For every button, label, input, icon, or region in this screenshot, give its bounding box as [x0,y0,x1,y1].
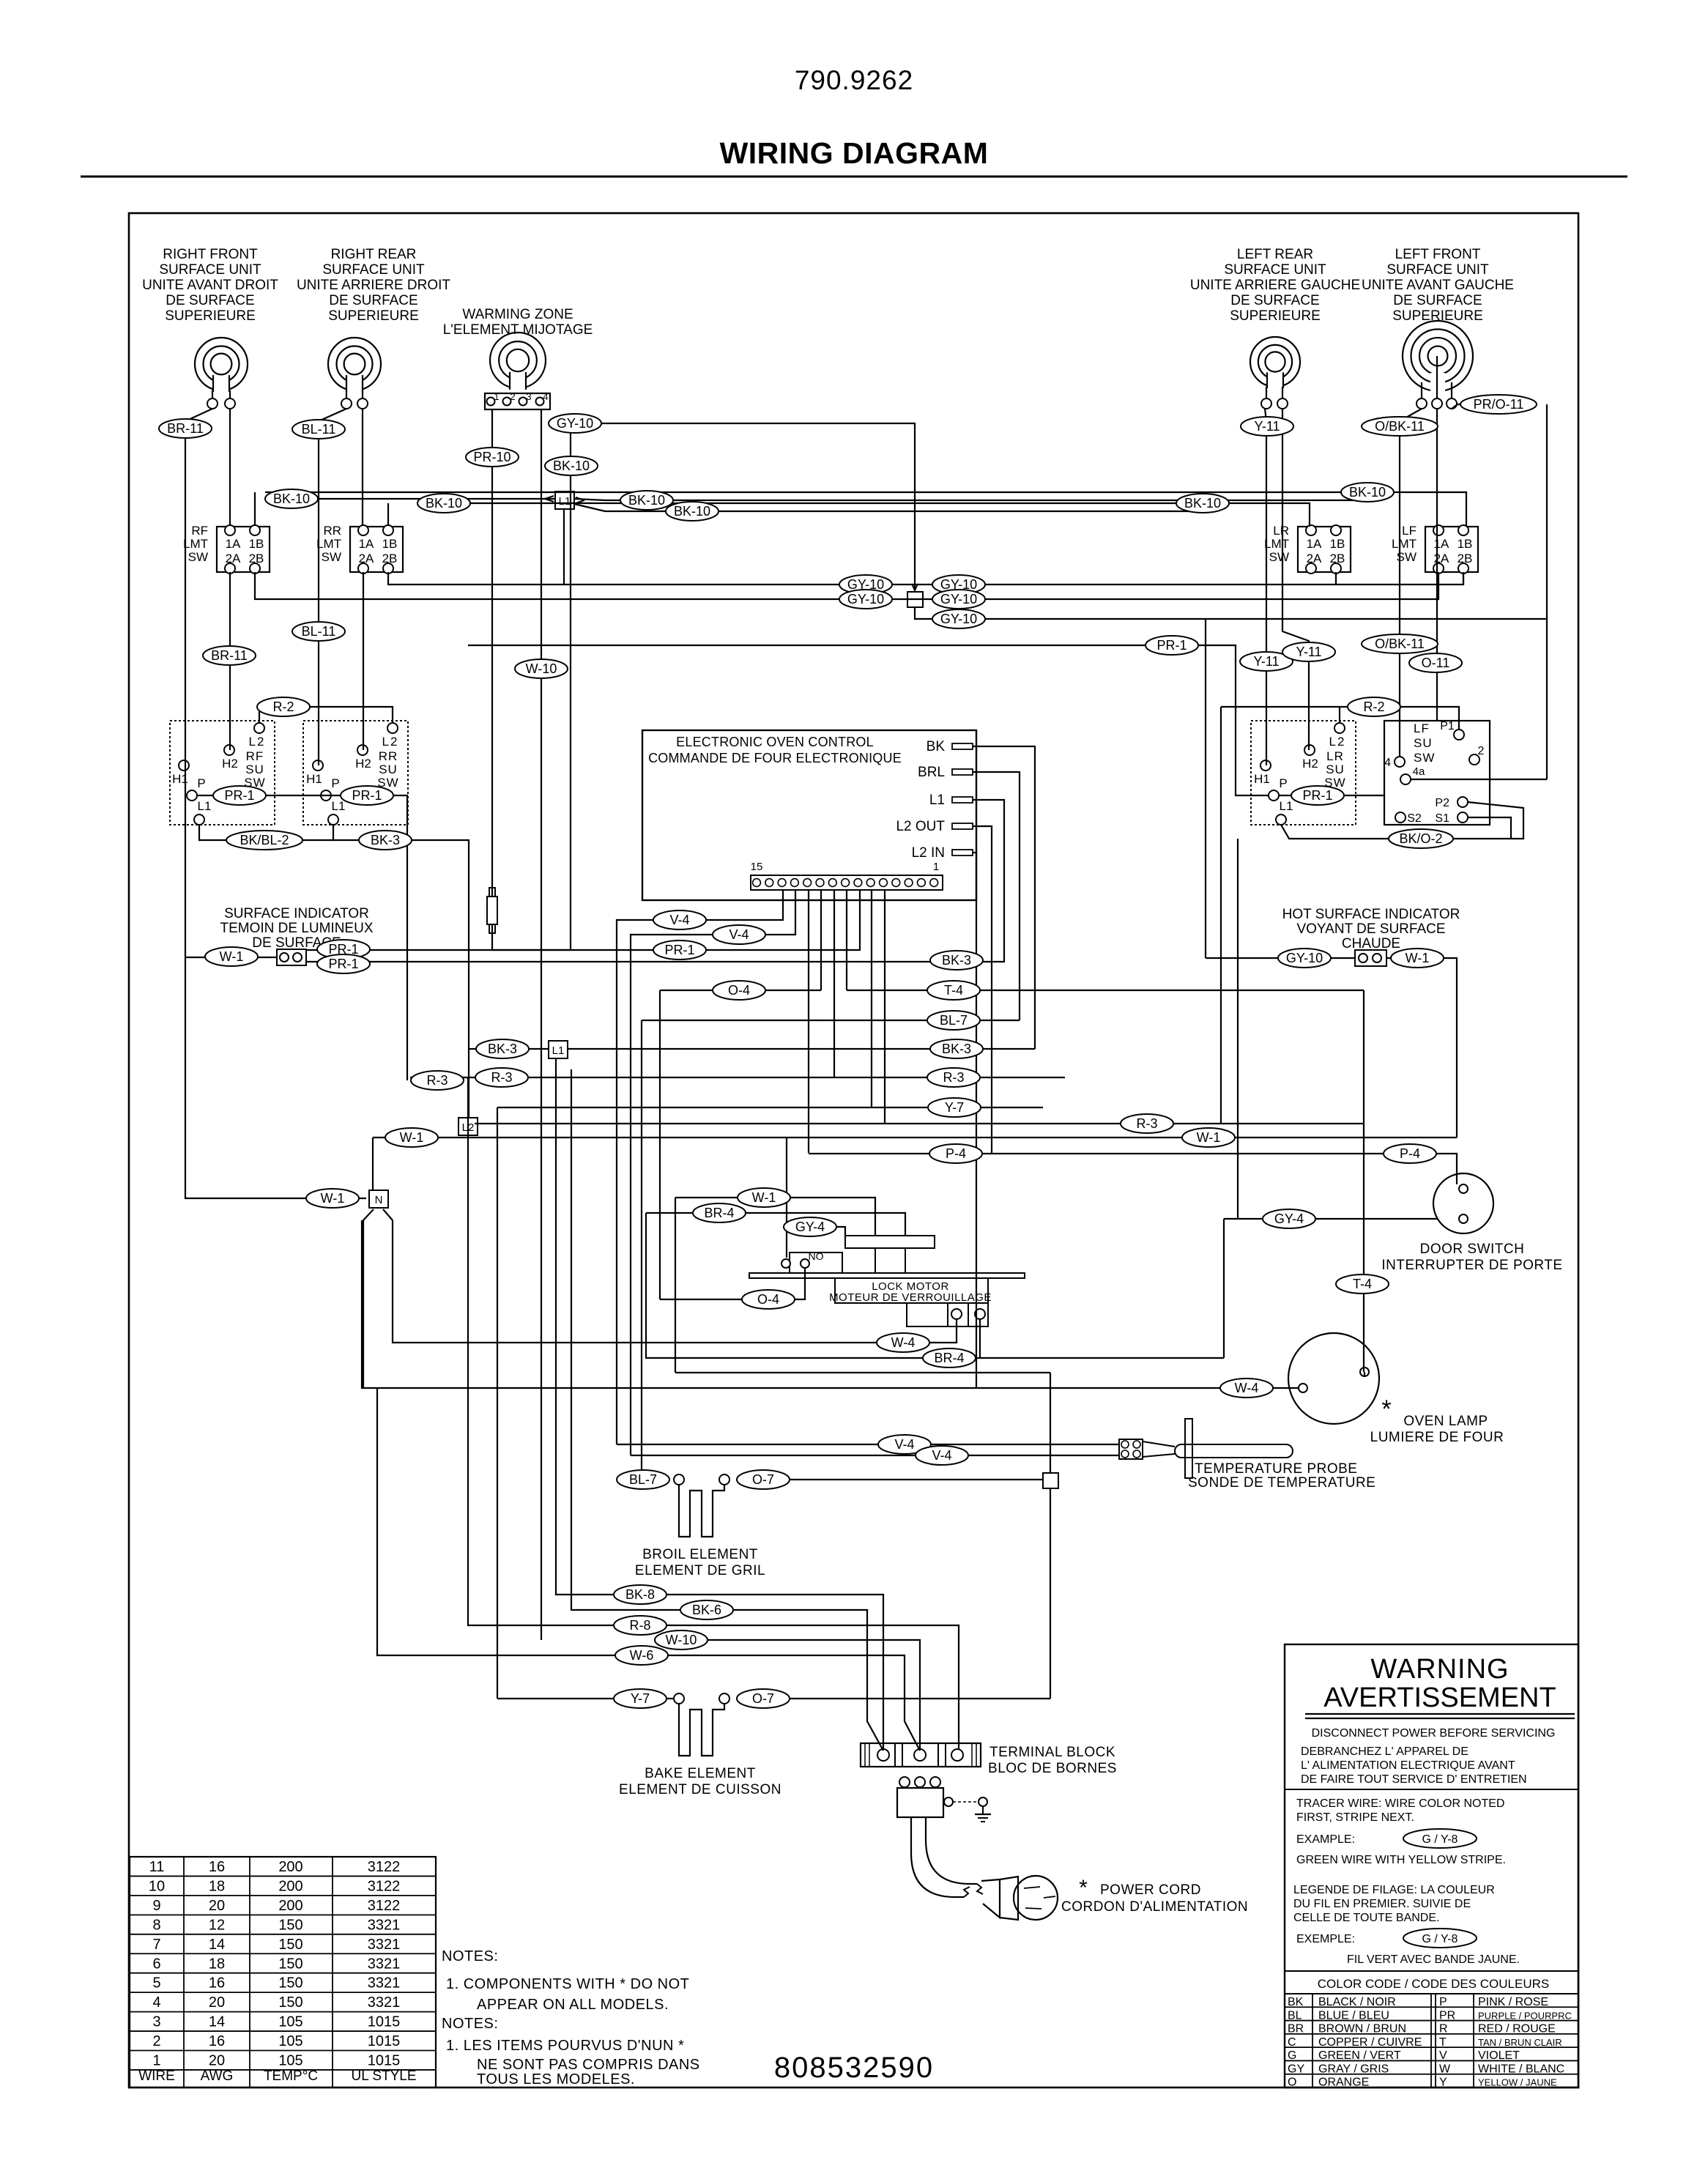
svg-text:16: 16 [209,2033,225,2049]
svg-text:DE SURFACE: DE SURFACE [1230,293,1319,308]
svg-text:Y-11: Y-11 [1253,654,1279,669]
svg-text:GY-4: GY-4 [1274,1211,1304,1226]
svg-text:UNITE ARRIERE GAUCHE: UNITE ARRIERE GAUCHE [1190,278,1360,293]
svg-text:BK-10: BK-10 [273,491,310,506]
svg-text:12: 12 [209,1917,225,1933]
svg-text:R-2: R-2 [1363,699,1384,714]
svg-text:2: 2 [1478,745,1485,757]
svg-text:LR: LR [1326,749,1344,763]
svg-text:Y: Y [1439,2077,1447,2089]
svg-text:Y-11: Y-11 [1296,645,1321,659]
svg-text:BR-11: BR-11 [167,421,204,436]
svg-text:BK-6: BK-6 [692,1603,721,1617]
svg-text:P2: P2 [1435,797,1449,809]
svg-text:LR: LR [1273,524,1289,538]
svg-text:PR-1: PR-1 [328,957,358,971]
svg-text:ORANGE: ORANGE [1318,2077,1369,2089]
svg-text:105: 105 [278,2033,302,2049]
svg-text:O-4: O-4 [757,1292,779,1307]
svg-text:3321: 3321 [368,1975,401,1992]
svg-text:H2: H2 [222,757,238,771]
svg-text:4a: 4a [1413,765,1425,778]
svg-text:SURFACE UNIT: SURFACE UNIT [322,262,425,278]
svg-text:200: 200 [278,1898,302,1914]
svg-text:BK-10: BK-10 [674,504,710,519]
svg-text:O-7: O-7 [752,1691,774,1706]
svg-text:3: 3 [526,391,531,402]
svg-text:3321: 3321 [368,1917,401,1933]
svg-text:O-11: O-11 [1422,656,1450,670]
svg-text:BK/BL-2: BK/BL-2 [240,833,289,847]
svg-text:W-1: W-1 [1406,951,1430,965]
svg-text:PR-1: PR-1 [224,788,254,803]
svg-text:SW: SW [322,550,341,564]
svg-text:RF: RF [246,749,264,763]
svg-text:LMT: LMT [1392,537,1416,551]
svg-text:LMT: LMT [183,537,208,551]
svg-text:O/BK-11: O/BK-11 [1375,419,1425,434]
svg-text:DEBRANCHEZ L' APPAREL DE: DEBRANCHEZ L' APPAREL DE [1301,1745,1468,1758]
svg-text:CHAUDE: CHAUDE [1342,936,1400,951]
svg-text:8: 8 [152,1917,160,1933]
svg-text:W-1: W-1 [321,1191,345,1206]
svg-text:1A: 1A [359,537,374,551]
svg-text:T-4: T-4 [1353,1277,1372,1291]
svg-text:NE SONT PAS COMPRIS DANS: NE SONT PAS COMPRIS DANS [477,2057,700,2073]
svg-text:SURFACE INDICATOR: SURFACE INDICATOR [224,906,369,921]
svg-text:R-3: R-3 [426,1073,448,1088]
svg-text:2: 2 [510,391,515,402]
svg-text:O/BK-11: O/BK-11 [1375,637,1425,651]
svg-text:4: 4 [152,1994,160,2011]
svg-text:BR-4: BR-4 [934,1351,964,1365]
svg-text:7: 7 [152,1937,160,1953]
svg-text:V-4: V-4 [669,913,689,927]
svg-text:L1: L1 [552,1044,565,1057]
svg-text:GY-4: GY-4 [795,1220,825,1234]
svg-text:L1: L1 [332,799,346,813]
svg-text:TRACER WIRE: WIRE COLOR NOTED: TRACER WIRE: WIRE COLOR NOTED [1296,1797,1504,1810]
svg-text:T: T [1439,2036,1447,2049]
svg-text:PR-1: PR-1 [352,788,382,803]
svg-text:G / Y-8: G / Y-8 [1422,1833,1458,1846]
svg-text:20: 20 [209,1994,225,2011]
svg-text:S1: S1 [1435,812,1449,825]
svg-text:R-8: R-8 [629,1618,650,1633]
svg-text:BK: BK [927,739,946,754]
svg-text:WARMING ZONE: WARMING ZONE [462,307,573,322]
svg-text:AVERTISSEMENT: AVERTISSEMENT [1323,1682,1556,1713]
svg-text:CELLE DE TOUTE BANDE.: CELLE DE TOUTE BANDE. [1293,1912,1439,1924]
svg-text:BL-7: BL-7 [940,1013,968,1028]
svg-text:1015: 1015 [368,2014,401,2030]
svg-text:P: P [331,776,339,790]
svg-text:NOTES:: NOTES: [442,1948,498,1964]
svg-text:P-4: P-4 [1400,1146,1420,1161]
svg-text:PR-1: PR-1 [664,943,694,957]
svg-text:S2: S2 [1407,812,1422,825]
svg-text:*: * [1381,1395,1391,1423]
svg-text:EXAMPLE:: EXAMPLE: [1296,1833,1355,1846]
svg-text:BR-11: BR-11 [211,648,248,663]
svg-text:4: 4 [543,391,548,402]
svg-text:LEGENDE DE FILAGE: LA COULEUR: LEGENDE DE FILAGE: LA COULEUR [1293,1884,1495,1896]
svg-text:UNITE ARRIERE DROIT: UNITE ARRIERE DROIT [297,278,450,293]
svg-text:UNITE AVANT GAUCHE: UNITE AVANT GAUCHE [1362,278,1514,293]
svg-text:HOT SURFACE INDICATOR: HOT SURFACE INDICATOR [1282,907,1460,922]
svg-text:SURFACE UNIT: SURFACE UNIT [1224,262,1326,278]
svg-text:10: 10 [149,1878,165,1894]
svg-text:15: 15 [751,861,763,873]
svg-text:1. LES ITEMS POURVUS D'NUN *: 1. LES ITEMS POURVUS D'NUN * [446,2038,684,2054]
svg-text:RF: RF [191,524,208,538]
svg-text:BK: BK [1288,1996,1304,2008]
svg-text:DE SURFACE: DE SURFACE [166,293,254,308]
svg-text:2: 2 [152,2033,160,2049]
svg-text:1B: 1B [1330,537,1345,551]
svg-text:DU FIL EN PREMIER. SUIVIE: DU FIL EN PREMIER. SUIVIE DE [1293,1898,1471,1910]
svg-text:11: 11 [149,1859,165,1875]
svg-text:20: 20 [209,2053,225,2069]
svg-text:R-3: R-3 [1136,1116,1157,1131]
svg-text:BK/O-2: BK/O-2 [1399,831,1442,846]
svg-text:R: R [1439,2023,1448,2035]
svg-text:3321: 3321 [368,1937,401,1953]
svg-text:3122: 3122 [368,1878,401,1894]
svg-text:H1: H1 [306,772,322,786]
svg-text:3321: 3321 [368,1956,401,1972]
svg-text:L' ALIMENTATION ELECTRIQUE A: L' ALIMENTATION ELECTRIQUE AVANT [1301,1759,1515,1772]
svg-text:L'ELEMENT MIJOTAGE: L'ELEMENT MIJOTAGE [443,322,593,338]
svg-text:INTERRUPTER DE PORTE: INTERRUPTER DE PORTE [1381,1258,1562,1273]
svg-text:WARNING: WARNING [1370,1654,1509,1685]
svg-text:ELECTRONIC OVEN CONTROL: ELECTRONIC OVEN CONTROL [676,735,874,749]
svg-text:BK-10: BK-10 [553,459,590,473]
svg-text:790.9262: 790.9262 [795,65,913,95]
svg-text:AWG: AWG [201,2068,234,2084]
svg-text:TOUS LES MODELES.: TOUS LES MODELES. [477,2071,635,2087]
svg-text:BK-10: BK-10 [1349,485,1386,500]
svg-text:SUPERIEURE: SUPERIEURE [1230,308,1321,324]
svg-text:4: 4 [1384,757,1391,769]
svg-text:BLACK / NOIR: BLACK / NOIR [1318,1996,1396,2008]
svg-text:POWER CORD: POWER CORD [1100,1882,1201,1898]
svg-text:COLOR CODE / CODE DES COULEU: COLOR CODE / CODE DES COULEURS [1318,1977,1549,1991]
svg-text:LEFT REAR: LEFT REAR [1237,247,1313,262]
svg-text:C: C [1288,2036,1296,2049]
svg-text:UL STYLE: UL STYLE [351,2068,416,2084]
svg-text:SW: SW [188,550,208,564]
svg-text:BR: BR [1288,2023,1304,2035]
svg-text:BK-3: BK-3 [371,833,400,847]
svg-text:Y-7: Y-7 [631,1691,650,1706]
svg-text:18: 18 [209,1878,225,1894]
svg-text:SUPERIEURE: SUPERIEURE [328,308,419,324]
svg-text:EXEMPLE:: EXEMPLE: [1296,1933,1355,1945]
svg-text:R-3: R-3 [943,1070,964,1085]
svg-text:150: 150 [278,1917,302,1933]
svg-text:W-1: W-1 [400,1130,424,1145]
svg-text:*: * [1079,1876,1088,1900]
svg-text:GY: GY [1288,2063,1304,2075]
svg-text:RR: RR [379,749,398,763]
svg-text:SW: SW [1269,550,1289,564]
svg-text:DE SURFACE: DE SURFACE [1393,293,1482,308]
svg-text:GY-10: GY-10 [557,416,593,431]
svg-text:H2: H2 [1302,757,1318,771]
svg-text:H2: H2 [355,757,371,771]
svg-text:L2: L2 [249,735,266,749]
svg-text:9: 9 [152,1898,160,1914]
svg-text:PR/O-11: PR/O-11 [1474,397,1524,412]
svg-text:BLUE / BLEU: BLUE / BLEU [1318,2009,1389,2022]
svg-text:105: 105 [278,2053,302,2069]
svg-text:18: 18 [209,1956,225,1972]
svg-text:1B: 1B [1458,537,1473,551]
svg-text:1015: 1015 [368,2033,401,2049]
svg-text:1A: 1A [226,537,241,551]
svg-text:SUPERIEURE: SUPERIEURE [165,308,256,324]
svg-text:DISCONNECT POWER BEFORE SERVIC: DISCONNECT POWER BEFORE SERVICING [1312,1727,1556,1740]
svg-text:1: 1 [152,2053,160,2069]
svg-text:BL-11: BL-11 [302,624,336,639]
svg-text:VOYANT DE SURFACE: VOYANT DE SURFACE [1296,921,1445,937]
svg-text:GREEN WIRE WITH YELLOW STRIPE.: GREEN WIRE WITH YELLOW STRIPE. [1296,1854,1506,1866]
svg-text:200: 200 [278,1878,302,1894]
svg-text:P: P [1439,1996,1447,2008]
svg-text:N: N [375,1194,383,1206]
svg-text:SU: SU [245,762,264,776]
svg-text:LF: LF [1402,524,1416,538]
svg-text:16: 16 [209,1975,225,1992]
svg-text:ELEMENT DE GRIL: ELEMENT DE GRIL [635,1563,765,1578]
svg-text:CORDON D'ALIMENTATION: CORDON D'ALIMENTATION [1061,1899,1248,1915]
svg-text:PR-1: PR-1 [1302,788,1332,803]
svg-text:105: 105 [278,2014,302,2030]
svg-text:RIGHT REAR: RIGHT REAR [331,247,417,262]
svg-text:APPEAR ON ALL MODELS.: APPEAR ON ALL MODELS. [477,1997,669,2013]
svg-text:G / Y-8: G / Y-8 [1422,1933,1458,1945]
svg-text:5: 5 [152,1975,160,1992]
svg-text:RR: RR [323,524,341,538]
svg-text:V-4: V-4 [894,1437,914,1452]
svg-text:3122: 3122 [368,1898,401,1914]
svg-text:GREEN / VERT: GREEN / VERT [1318,2049,1401,2062]
svg-text:W-10: W-10 [666,1633,697,1647]
svg-text:SU: SU [1414,736,1433,750]
svg-text:150: 150 [278,1975,302,1992]
svg-text:GRAY / GRIS: GRAY / GRIS [1318,2063,1389,2075]
svg-text:R-3: R-3 [491,1070,512,1085]
svg-text:LUMIERE DE FOUR: LUMIERE DE FOUR [1370,1430,1504,1445]
svg-text:3321: 3321 [368,1994,401,2011]
svg-text:V-4: V-4 [932,1448,951,1463]
svg-text:TEMP°C: TEMP°C [264,2068,318,2084]
svg-text:BROIL ELEMENT: BROIL ELEMENT [642,1547,758,1562]
svg-text:ELEMENT DE CUISSON: ELEMENT DE CUISSON [619,1782,781,1797]
svg-text:DE SURFACE: DE SURFACE [329,293,417,308]
svg-text:WIRE: WIRE [138,2068,175,2084]
svg-text:BK-10: BK-10 [628,493,665,508]
svg-text:W-1: W-1 [1197,1130,1221,1145]
svg-text:W-4: W-4 [891,1335,916,1350]
svg-text:W-4: W-4 [1235,1381,1259,1395]
svg-text:P-4: P-4 [946,1146,966,1161]
svg-text:14: 14 [209,1937,225,1953]
svg-text:20: 20 [209,1898,225,1914]
svg-text:1. COMPONENTS WITH * DO NOT: 1. COMPONENTS WITH * DO NOT [446,1976,689,1992]
svg-text:T-4: T-4 [944,983,963,998]
svg-text:BL-11: BL-11 [302,422,336,437]
svg-text:WIRING DIAGRAM: WIRING DIAGRAM [720,136,989,170]
svg-text:BL: BL [1288,2009,1302,2022]
svg-text:BL-7: BL-7 [629,1472,657,1487]
svg-text:UNITE AVANT DROIT: UNITE AVANT DROIT [142,278,278,293]
svg-text:6: 6 [152,1956,160,1972]
svg-text:LMT: LMT [1264,537,1289,551]
svg-text:SURFACE UNIT: SURFACE UNIT [159,262,261,278]
svg-text:COMMANDE DE FOUR ELECTRONIQUE: COMMANDE DE FOUR ELECTRONIQUE [648,751,902,765]
svg-text:LF: LF [1414,721,1430,735]
svg-text:BK-3: BK-3 [942,953,971,968]
svg-text:W-1: W-1 [752,1190,776,1205]
svg-text:V-4: V-4 [729,927,749,942]
svg-text:SU: SU [379,762,398,776]
svg-text:GY-10: GY-10 [940,592,977,606]
svg-text:BROWN / BRUN: BROWN / BRUN [1318,2023,1406,2035]
svg-text:L2 IN: L2 IN [912,845,945,861]
svg-text:V: V [1439,2049,1447,2062]
svg-text:150: 150 [278,1937,302,1953]
svg-text:Y-7: Y-7 [945,1100,964,1115]
svg-text:1B: 1B [249,537,264,551]
svg-text:DE FAIRE TOUT SERVICE D' E: DE FAIRE TOUT SERVICE D' ENTRETIEN [1301,1773,1527,1786]
svg-text:TAN / BRUN CLAIR: TAN / BRUN CLAIR [1478,2037,1562,2048]
svg-text:BK-3: BK-3 [488,1042,517,1056]
svg-text:3: 3 [152,2014,160,2030]
svg-text:SU: SU [1326,762,1345,776]
svg-text:H1: H1 [1254,772,1270,786]
svg-text:FIL VERT AVEC BANDE JAUNE.: FIL VERT AVEC BANDE JAUNE. [1347,1953,1520,1966]
svg-text:MOTEUR DE VERROUILLAGE: MOTEUR DE VERROUILLAGE [829,1291,992,1304]
svg-text:TEMPERATURE PROBE: TEMPERATURE PROBE [1195,1461,1357,1477]
svg-text:LEFT FRONT: LEFT FRONT [1395,247,1481,262]
svg-text:W: W [1439,2063,1451,2075]
svg-text:GY-10: GY-10 [847,592,884,606]
svg-text:1: 1 [933,861,939,873]
svg-text:FIRST, STRIPE NEXT.: FIRST, STRIPE NEXT. [1296,1811,1414,1824]
svg-text:BK-3: BK-3 [942,1042,971,1056]
svg-text:BAKE ELEMENT: BAKE ELEMENT [645,1766,756,1781]
svg-text:BLOC DE BORNES: BLOC DE BORNES [988,1761,1117,1776]
svg-text:OVEN LAMP: OVEN LAMP [1403,1414,1488,1429]
svg-text:1A: 1A [1307,537,1322,551]
svg-text:BRL: BRL [918,765,945,780]
svg-text:O: O [1288,2077,1296,2089]
svg-text:BK-8: BK-8 [625,1587,655,1602]
svg-text:P: P [1279,776,1287,790]
svg-text:NO: NO [809,1250,824,1262]
svg-text:RED / ROUGE: RED / ROUGE [1478,2023,1556,2035]
svg-text:3122: 3122 [368,1859,401,1875]
svg-text:Y-11: Y-11 [1254,419,1280,434]
svg-text:W-10: W-10 [526,661,557,676]
svg-text:200: 200 [278,1859,302,1875]
svg-text:VIOLET: VIOLET [1478,2049,1520,2062]
svg-text:BK-10: BK-10 [1184,496,1221,511]
svg-text:LMT: LMT [316,537,341,551]
svg-text:1A: 1A [1434,537,1449,551]
svg-text:808532590: 808532590 [774,2052,934,2084]
svg-text:L1: L1 [929,793,945,808]
svg-text:16: 16 [209,1859,225,1875]
svg-text:COPPER / CUIVRE: COPPER / CUIVRE [1318,2036,1422,2049]
svg-text:P: P [197,776,205,790]
svg-text:TEMOIN DE LUMINEUX: TEMOIN DE LUMINEUX [220,921,373,936]
svg-text:PURPLE / POURPRC: PURPLE / POURPRC [1478,2010,1572,2021]
svg-text:SONDE DE TEMPERATURE: SONDE DE TEMPERATURE [1188,1475,1375,1491]
svg-text:1015: 1015 [368,2053,401,2069]
svg-text:O-4: O-4 [728,983,750,998]
svg-text:W-6: W-6 [630,1648,654,1663]
svg-text:L2: L2 [1329,735,1346,749]
svg-text:YELLOW / JAUNE: YELLOW / JAUNE [1478,2077,1557,2088]
svg-text:PINK / ROSE: PINK / ROSE [1478,1996,1548,2008]
svg-text:L1: L1 [559,495,571,508]
svg-text:L2 OUT: L2 OUT [896,819,945,834]
svg-text:SURFACE UNIT: SURFACE UNIT [1386,262,1489,278]
svg-text:PR-1: PR-1 [1156,638,1187,653]
svg-text:1: 1 [494,391,499,402]
svg-text:SW: SW [1414,751,1435,765]
svg-text:WHITE / BLANC: WHITE / BLANC [1478,2063,1564,2075]
svg-text:W-1: W-1 [220,949,244,964]
svg-text:NOTES:: NOTES: [442,2016,498,2032]
svg-text:DOOR SWITCH: DOOR SWITCH [1420,1242,1525,1257]
svg-text:TERMINAL BLOCK: TERMINAL BLOCK [989,1745,1115,1760]
svg-text:O-7: O-7 [752,1472,774,1487]
svg-text:GY-10: GY-10 [940,612,977,626]
svg-text:RIGHT FRONT: RIGHT FRONT [163,247,258,262]
svg-text:L2: L2 [382,735,399,749]
svg-text:150: 150 [278,1956,302,1972]
svg-text:G: G [1288,2049,1296,2062]
svg-text:BK-10: BK-10 [426,496,462,511]
svg-text:P1: P1 [1440,720,1455,732]
svg-text:1B: 1B [382,537,398,551]
svg-text:14: 14 [209,2014,225,2030]
svg-text:PR: PR [1439,2009,1455,2022]
svg-text:R-2: R-2 [272,699,294,714]
svg-text:L1: L1 [198,799,212,813]
svg-text:BR-4: BR-4 [704,1206,734,1220]
svg-text:PR-10: PR-10 [473,450,510,464]
svg-text:GY-10: GY-10 [1286,951,1323,965]
svg-text:150: 150 [278,1994,302,2011]
svg-text:L1: L1 [1280,799,1293,813]
